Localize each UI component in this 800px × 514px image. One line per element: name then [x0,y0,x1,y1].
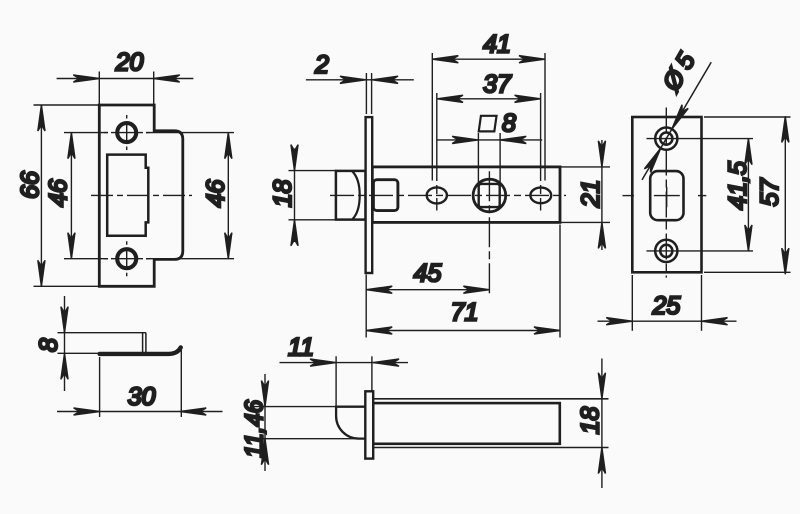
dim 2 (faceplate thickness) [306,73,414,114]
svg-text:18: 18 [269,180,297,208]
centerline plate middle [91,194,192,196]
dim 66 [34,105,99,286]
dim 11 [280,356,409,407]
follower square hole [479,184,500,207]
dim 11,46 [252,374,358,471]
square centerline ticks [623,195,707,197]
svg-text:11,46: 11,46 [241,400,269,458]
dim 30 [57,350,223,417]
dim 57 [704,116,791,274]
svg-text:45: 45 [414,260,442,288]
svg-text:57: 57 [756,178,784,207]
square symbol [479,116,497,132]
tube inner body [373,403,560,444]
bolt tail square [373,180,398,211]
svg-text:71: 71 [451,299,479,327]
follower hub circle [473,179,506,212]
horizontal centerline [330,194,566,196]
square latch hole [650,171,683,220]
latch cutout [107,155,148,236]
faceplate front [632,117,701,272]
svg-text:11: 11 [288,334,314,362]
faceplate edge view [366,117,373,273]
dim 37 [437,95,541,102]
centerline big circle vertical [488,171,490,293]
tube outer lines [373,399,608,448]
leader diameter 5 [642,62,711,180]
hole centerline top [647,138,754,140]
dim 8 [58,296,146,391]
screw hole top [104,115,150,150]
svg-text:30: 30 [128,383,156,411]
svg-text:66: 66 [17,171,45,199]
svg-text:8: 8 [502,110,516,138]
hole centerline bottom [647,250,754,252]
svg-text:Ø5: Ø5 [657,43,704,96]
dim square 8 [437,133,542,183]
svg-text:41,5: 41,5 [724,161,752,210]
dim 21 body [561,140,610,250]
screw hole bottom [104,241,150,276]
svg-text:8: 8 [35,338,63,352]
svg-text:20: 20 [115,49,144,77]
latch bolt [336,171,366,220]
dim 46 left [64,133,108,259]
dim 71 [366,225,560,338]
svg-text:46: 46 [202,180,230,208]
dim 18 bolt [289,145,338,246]
dim 46 right [146,133,234,259]
dim 41 [432,53,545,181]
dim 41,5 [745,139,752,251]
svg-text:21: 21 [577,180,605,209]
svg-text:2: 2 [314,51,329,79]
dim 25 [598,275,737,331]
svg-text:41: 41 [483,31,511,59]
centerline oval right vertical [540,93,542,211]
svg-text:18: 18 [577,407,605,435]
screw hole top [655,128,677,150]
dim 18 tube [598,359,605,489]
centerline oval left vertical [436,93,438,211]
dim 45 [366,275,489,338]
plate side body [100,347,181,354]
screw hole bottom [655,240,677,262]
vertical centerline [665,108,667,278]
svg-text:25: 25 [651,292,680,320]
faceplate side view [365,391,373,458]
bent tab [143,333,146,354]
screw oval right [530,188,551,204]
screw oval left [427,187,447,203]
bolt nose [336,407,365,439]
svg-text:46: 46 [45,179,73,207]
svg-text:37: 37 [483,71,512,99]
dim 20 [57,72,194,111]
latch body [372,167,560,223]
strike plate outline [99,105,183,286]
